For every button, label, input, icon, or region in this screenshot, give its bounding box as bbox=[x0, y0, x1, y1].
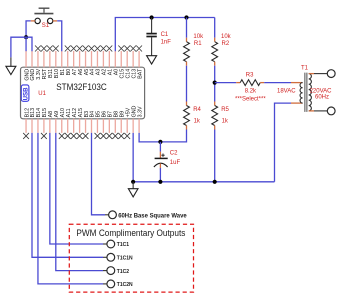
resistor R2 10k bbox=[212, 18, 232, 66]
svg-text:1uF: 1uF bbox=[170, 160, 181, 166]
svg-text:1nF: 1nF bbox=[161, 40, 172, 46]
resistor R5 1k bbox=[212, 102, 230, 130]
wire T1 primary bottom to bus bbox=[275, 103, 292, 182]
junction node bus/GND bbox=[131, 180, 135, 184]
capacitor C1 bbox=[146, 18, 171, 56]
svg-text:U1: U1 bbox=[38, 91, 46, 97]
junction node rail/R1 bbox=[184, 15, 188, 19]
junction node R2/R5/R3 bbox=[213, 81, 217, 85]
wire R3 to transformer T1 primary top bbox=[264, 82, 291, 84]
junction node rail/C1 bbox=[150, 15, 154, 19]
wire pin 3.3V to node C2 bbox=[139, 133, 160, 142]
ground symbol mid bbox=[128, 182, 138, 197]
terminal port T1 secondary bottom bbox=[327, 107, 335, 115]
wire R4 to node C2 bbox=[160, 130, 186, 142]
wire junction to pin GND2 bbox=[26, 37, 32, 51]
svg-text:C2: C2 bbox=[170, 151, 178, 157]
junction node S1/GND bbox=[24, 35, 28, 39]
svg-text:S1: S1 bbox=[42, 23, 50, 29]
capacitor C2 1uF electrolytic bbox=[154, 142, 181, 182]
bottom bus wire bbox=[133, 181, 274, 183]
wire pin B14 to port T1C2N bbox=[38, 133, 103, 284]
U1 bottom pins row bbox=[26, 119, 139, 133]
U1 top pins row bbox=[26, 51, 139, 67]
port 60Hz Base Square Wave bbox=[105, 211, 187, 219]
svg-text:C1: C1 bbox=[161, 32, 169, 38]
transformer T1 bbox=[277, 66, 332, 112]
wire R1 to R4 bbox=[186, 66, 188, 102]
svg-text:1k: 1k bbox=[222, 119, 229, 125]
svg-text:R4: R4 bbox=[193, 107, 201, 113]
wire junction down to pin GND1 bbox=[25, 37, 27, 51]
wire R2 to node R3 bbox=[214, 66, 216, 102]
svg-text:T1C2: T1C2 bbox=[117, 269, 129, 275]
PWM outputs dashed group box bbox=[69, 224, 193, 292]
svg-text:10k: 10k bbox=[221, 34, 232, 40]
svg-text:BAT: BAT bbox=[137, 68, 143, 79]
svg-text:R5: R5 bbox=[221, 107, 229, 113]
svg-text:R2: R2 bbox=[222, 41, 230, 47]
wire S1 left to junction bbox=[26, 21, 31, 37]
junction node C2 bottom bbox=[158, 180, 162, 184]
svg-text:T1: T1 bbox=[301, 66, 309, 72]
port T1C2 bbox=[103, 267, 129, 275]
svg-text:3.3V: 3.3V bbox=[137, 106, 143, 117]
no-connect marks bottom pin row bbox=[23, 133, 130, 139]
wire pin B13 to port T1C1N bbox=[32, 133, 103, 257]
svg-text:60Hz Base Square Wave: 60Hz Base Square Wave bbox=[118, 213, 187, 219]
junction node bus/R5 bbox=[213, 180, 217, 184]
wire pin A8 to port T1C1 bbox=[50, 133, 103, 244]
wire pin GND to bus bbox=[132, 133, 134, 182]
resistor R3 8.2k Select bbox=[215, 73, 267, 103]
svg-text:T1C1: T1C1 bbox=[117, 242, 129, 248]
wire R5 to bottom bus bbox=[214, 130, 216, 182]
U1 top pin name labels bbox=[24, 68, 143, 81]
svg-text:T1C2N: T1C2N bbox=[117, 282, 133, 288]
svg-text:T1C1N: T1C1N bbox=[117, 256, 133, 262]
junction node C2 top bbox=[158, 140, 162, 144]
U1 bottom pin name labels bbox=[24, 105, 143, 117]
port T1C1N bbox=[103, 253, 133, 261]
push button S1 bbox=[31, 8, 58, 29]
svg-text:***Select***: ***Select*** bbox=[235, 96, 266, 102]
svg-text:R3: R3 bbox=[246, 73, 254, 79]
svg-text:10k: 10k bbox=[193, 34, 204, 40]
wire junction to ground bbox=[11, 37, 26, 57]
svg-text:STM32F103C: STM32F103C bbox=[56, 82, 107, 92]
svg-text:18VAC: 18VAC bbox=[277, 88, 296, 94]
wire pin B4 to 60Hz port bbox=[92, 133, 106, 215]
microcontroller U1 STM32F103C body bbox=[21, 67, 145, 119]
port T1C2N bbox=[103, 280, 133, 288]
svg-text:8.2k: 8.2k bbox=[245, 89, 257, 95]
no-connect marks top pin row bbox=[35, 46, 142, 52]
svg-text:60Hz: 60Hz bbox=[315, 94, 329, 100]
resistor R4 1k bbox=[184, 102, 202, 130]
ground symbol top-left bbox=[6, 57, 16, 74]
svg-text:PWM Complimentary Outputs: PWM Complimentary Outputs bbox=[76, 228, 186, 238]
USB label block on U1 bbox=[21, 85, 29, 101]
svg-text:1k: 1k bbox=[194, 119, 201, 125]
wire pin A0 up to top rail bbox=[115, 18, 214, 52]
wire S1 right to pin B1 bbox=[57, 21, 62, 51]
wire pin A9 to port T1C2 bbox=[56, 133, 103, 271]
port T1C1 bbox=[103, 240, 129, 248]
terminal port T1 secondary top bbox=[327, 70, 335, 78]
ground symbol under C1 bbox=[147, 56, 157, 64]
svg-text:USB: USB bbox=[23, 87, 30, 100]
svg-text:R1: R1 bbox=[194, 41, 202, 47]
resistor R1 10k bbox=[184, 18, 204, 66]
